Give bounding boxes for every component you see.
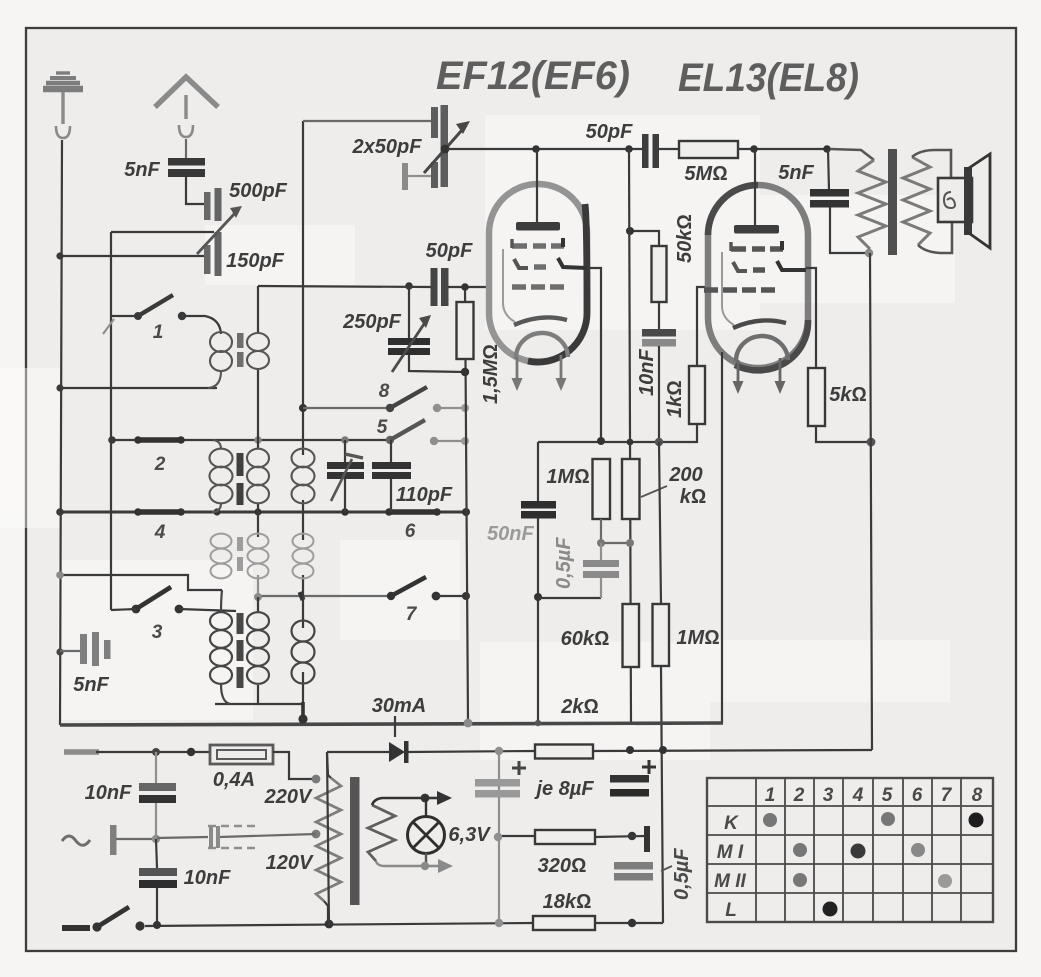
svg-text:4: 4 (154, 522, 166, 543)
svg-text:je 8µF: je 8µF (533, 778, 594, 800)
svg-text:L: L (725, 900, 737, 921)
svg-text:2x50pF: 2x50pF (352, 136, 423, 158)
svg-text:5MΩ: 5MΩ (684, 163, 727, 185)
svg-text:250pF: 250pF (342, 311, 402, 333)
svg-text:4: 4 (852, 785, 864, 806)
svg-text:50pF: 50pF (426, 240, 473, 262)
svg-text:10nF: 10nF (636, 349, 658, 396)
svg-text:5: 5 (377, 417, 388, 438)
svg-text:2: 2 (793, 785, 805, 806)
svg-text:5nF: 5nF (778, 162, 814, 184)
svg-text:8: 8 (379, 381, 390, 402)
svg-text:7: 7 (406, 604, 418, 625)
svg-text:5nF: 5nF (73, 674, 109, 696)
svg-text:10nF: 10nF (85, 782, 132, 804)
svg-text:6: 6 (912, 785, 923, 806)
svg-text:EL13(EL8): EL13(EL8) (678, 56, 859, 100)
svg-text:110pF: 110pF (396, 484, 453, 506)
svg-text:30mA: 30mA (372, 695, 426, 717)
svg-text:1: 1 (153, 322, 164, 343)
svg-text:200: 200 (668, 464, 702, 486)
svg-text:7: 7 (941, 785, 953, 806)
svg-text:5kΩ: 5kΩ (829, 384, 867, 406)
svg-text:50nF: 50nF (487, 523, 534, 545)
svg-text:10nF: 10nF (184, 867, 231, 889)
svg-text:18kΩ: 18kΩ (543, 891, 592, 913)
svg-text:1MΩ: 1MΩ (676, 627, 719, 649)
svg-text:2kΩ: 2kΩ (560, 696, 599, 718)
svg-text:1,5MΩ: 1,5MΩ (480, 344, 502, 404)
svg-text:6,3V: 6,3V (448, 824, 491, 846)
svg-text:6: 6 (405, 521, 416, 542)
svg-text:50pF: 50pF (586, 121, 633, 143)
svg-text:1kΩ: 1kΩ (664, 380, 686, 418)
svg-text:EF12(EF6): EF12(EF6) (436, 54, 630, 98)
svg-text:0,5µF: 0,5µF (671, 848, 693, 900)
svg-text:M I: M I (717, 842, 744, 863)
svg-text:0,5µF: 0,5µF (553, 537, 575, 589)
svg-text:320Ω: 320Ω (538, 855, 587, 877)
svg-text:150pF: 150pF (226, 250, 285, 272)
svg-text:1MΩ: 1MΩ (546, 466, 589, 488)
svg-text:3: 3 (152, 622, 163, 643)
svg-text:K: K (724, 813, 739, 834)
svg-text:5nF: 5nF (124, 159, 160, 181)
svg-text:50kΩ: 50kΩ (674, 214, 696, 263)
svg-text:1: 1 (765, 785, 776, 806)
svg-text:60kΩ: 60kΩ (561, 628, 610, 650)
svg-text:500pF: 500pF (229, 180, 288, 202)
svg-text:M II: M II (714, 871, 746, 892)
svg-text:kΩ: kΩ (680, 486, 706, 508)
svg-text:5: 5 (882, 785, 893, 806)
svg-text:0,4A: 0,4A (213, 769, 255, 791)
svg-text:8: 8 (972, 785, 983, 806)
svg-text:120V: 120V (266, 852, 314, 874)
svg-text:220V: 220V (264, 786, 313, 808)
svg-text:2: 2 (154, 454, 166, 475)
svg-text:3: 3 (823, 785, 834, 806)
